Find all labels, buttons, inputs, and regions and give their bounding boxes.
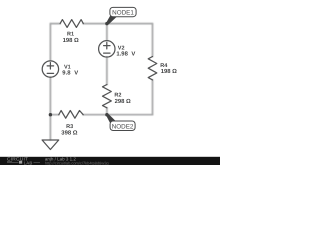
svg-text:R3: R3	[66, 124, 73, 130]
wire V2 to R2	[106, 57, 108, 84]
svg-text:V: V	[131, 51, 135, 58]
wire top-left segment	[50, 23, 60, 25]
junction dot NODE2	[105, 113, 108, 116]
resistor R4	[148, 57, 157, 80]
voltage source V1	[42, 61, 58, 77]
wire R3 to bottom-right corner	[83, 114, 152, 116]
junction dot bottom left	[49, 113, 52, 116]
svg-text:http:/​/circuitlab.com/c/7kb4t: http:/​/circuitlab.com/c/7kb4tp8d8w3g	[45, 160, 109, 165]
svg-text:298 Ω: 298 Ω	[115, 98, 131, 105]
watermark logo	[7, 156, 109, 165]
wire left vertical lower	[49, 77, 51, 114]
resistor R1	[60, 20, 83, 28]
svg-text:V1: V1	[64, 65, 71, 71]
svg-text:R2: R2	[114, 93, 121, 99]
watermark bar	[0, 157, 220, 165]
resistor R2	[103, 85, 112, 108]
svg-text:LAB: LAB	[24, 160, 33, 165]
svg-text:R4: R4	[160, 63, 168, 69]
wire R1 to top-right corner	[83, 23, 152, 25]
junction dot NODE1	[105, 22, 108, 25]
wire ground stub	[49, 115, 51, 140]
ground	[42, 140, 59, 150]
svg-text:R1: R1	[67, 32, 74, 38]
node NODE2	[110, 121, 135, 131]
svg-text:1.98: 1.98	[116, 51, 128, 58]
NODE1 tail	[106, 16, 117, 24]
svg-text:V: V	[74, 70, 78, 77]
svg-text:398 Ω: 398 Ω	[61, 130, 77, 137]
svg-text:V2: V2	[118, 45, 125, 51]
wire bottom-left segment	[50, 114, 58, 116]
NODE2 tail	[106, 114, 116, 123]
svg-text:NODE1: NODE1	[112, 9, 134, 16]
voltage source V2	[99, 41, 115, 57]
svg-text:198 Ω: 198 Ω	[161, 68, 177, 75]
svg-text:198 Ω: 198 Ω	[63, 37, 79, 44]
wire right vertical lower	[152, 80, 154, 115]
resistor R3	[59, 111, 83, 119]
wire middle top	[106, 24, 108, 41]
wire right vertical upper	[152, 24, 154, 57]
wire R2 to bottom wire	[106, 108, 108, 115]
wire left vertical upper	[49, 24, 51, 61]
node NODE1	[110, 7, 136, 16]
svg-text:9.8: 9.8	[62, 70, 71, 77]
svg-text:NODE2: NODE2	[112, 124, 134, 131]
